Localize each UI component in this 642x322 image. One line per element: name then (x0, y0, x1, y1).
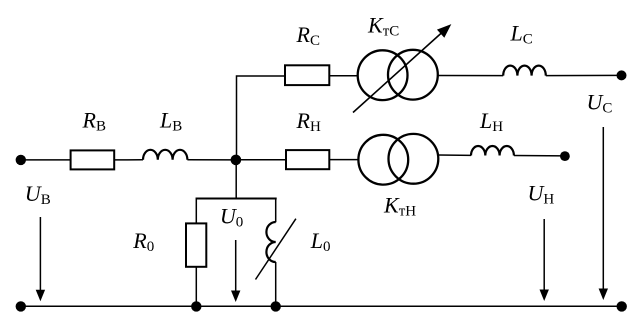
wire R_H to transformer K_tH (329, 159, 358, 161)
wire R_0 to bottom rail (195, 267, 197, 306)
terminal dot bottom left (16, 301, 26, 311)
resistor R_0 (186, 223, 206, 266)
wire left terminal to R_B (21, 159, 71, 161)
inductor L_C (503, 66, 546, 76)
wire bar to R_0 (195, 198, 197, 224)
resistor R_B (71, 150, 115, 169)
inductor L_0 (266, 222, 275, 262)
wire R_B to L_B (114, 159, 143, 161)
variable arrow through K_tC (353, 25, 450, 113)
wire bar to L_0 (275, 198, 277, 223)
voltage arrow U_B (36, 217, 45, 301)
wire L_H to right middle terminal (514, 155, 565, 157)
transformer K_tC (358, 50, 438, 100)
voltage arrow U_C (599, 127, 608, 300)
terminal dot bottom right (617, 301, 627, 311)
voltage arrow U_0 (231, 240, 240, 302)
terminal dot middle right (H) (560, 151, 570, 161)
transformer K_tH (358, 134, 438, 185)
wire shunt top bar (196, 198, 277, 200)
wire junction up to top branch (237, 76, 286, 160)
node L_0 bottom (271, 301, 281, 311)
wire L_B to junction (187, 159, 236, 161)
resistor R_C (285, 65, 329, 85)
wire bottom rail (21, 305, 622, 307)
wire junction down to shunt bar (235, 160, 237, 199)
node junction (231, 155, 242, 166)
wire L_0 to bottom rail (275, 262, 277, 306)
wire K_tH to L_H (438, 154, 471, 156)
wire K_tC to L_C (438, 75, 503, 77)
terminal dot left (input B) (16, 155, 26, 165)
node R_0 bottom (191, 301, 201, 311)
inductor L_B (143, 150, 187, 160)
inductor L_H (471, 146, 514, 156)
resistor R_H (286, 150, 329, 169)
wire junction to R_H (236, 159, 286, 161)
terminal dot top right (C) (617, 70, 627, 80)
nonlinearity slash through L_0 (256, 219, 296, 280)
wire R_C to transformer K_tC (329, 75, 358, 77)
voltage arrow U_H (540, 219, 549, 301)
wire L_C to right top terminal (546, 74, 622, 76)
